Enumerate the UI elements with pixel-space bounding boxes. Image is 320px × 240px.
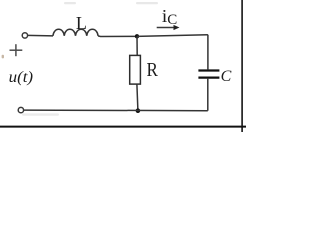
resistor R — [130, 36, 141, 110]
current arrow iC — [157, 25, 180, 30]
wire: top terminal to inductor — [28, 34, 53, 37]
svg-text:C: C — [221, 68, 232, 85]
wire: inductor to node A — [98, 35, 137, 38]
label + polarity — [10, 44, 23, 56]
svg-text:C: C — [167, 12, 177, 28]
junction: node A — [135, 34, 139, 38]
terminal: top input terminal — [22, 33, 27, 38]
svg-text:R: R — [147, 60, 158, 81]
svg-text:u(t): u(t) — [9, 69, 34, 86]
junction: bottom node — [136, 108, 141, 113]
terminal: bottom input terminal — [18, 107, 23, 112]
capacitor C — [198, 35, 219, 111]
svg-text:L: L — [76, 13, 87, 33]
inductor L — [53, 29, 98, 36]
wire: node A to top-right corner — [137, 35, 208, 37]
wire: bottom rail — [24, 109, 208, 112]
